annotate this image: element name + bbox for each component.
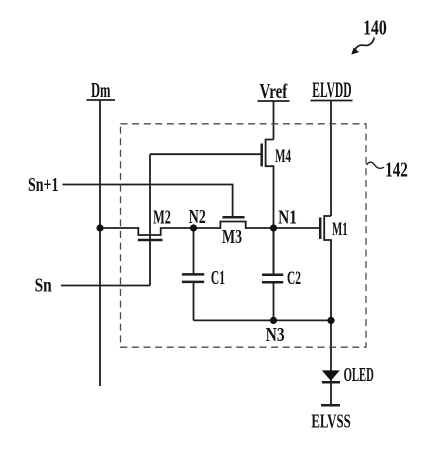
svg-text:Dm: Dm [91,79,111,102]
svg-text:M3: M3 [222,226,242,248]
svg-text:140: 140 [363,16,387,40]
svg-text:M2: M2 [153,206,171,229]
svg-text:M4: M4 [275,146,291,167]
svg-text:Sn+1: Sn+1 [28,174,58,196]
svg-text:142: 142 [385,158,408,182]
svg-text:C2: C2 [287,268,301,289]
svg-text:C1: C1 [211,268,225,289]
svg-text:N2: N2 [189,206,206,228]
svg-text:N1: N1 [278,206,297,228]
svg-text:ELVSS: ELVSS [311,409,350,432]
svg-text:ELVDD: ELVDD [312,77,351,102]
svg-text:OLED: OLED [344,365,374,386]
svg-text:Sn: Sn [35,274,52,296]
svg-text:N3: N3 [266,323,285,345]
svg-text:Vref: Vref [260,79,288,103]
svg-text:M1: M1 [332,219,348,240]
